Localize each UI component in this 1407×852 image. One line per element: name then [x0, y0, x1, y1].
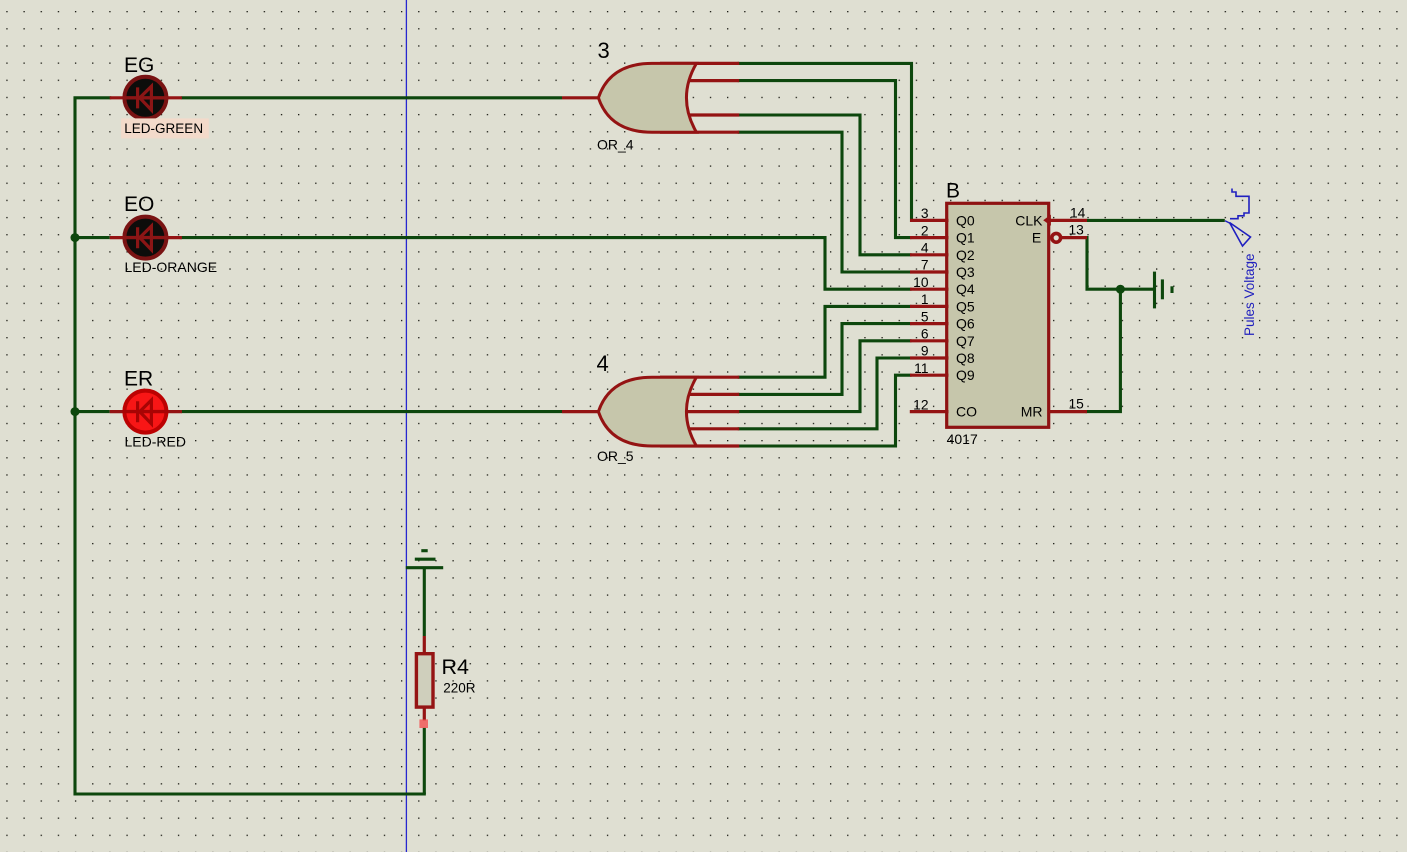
svg-text:Q8: Q8: [956, 350, 975, 366]
wire: OR_4 input4 to Q3: [739, 132, 910, 272]
svg-text:Q2: Q2: [956, 247, 975, 263]
pin 12 (CO): [910, 397, 977, 419]
wire: ground to R4 top: [423, 568, 426, 636]
or-gate OR_4: [562, 63, 739, 132]
pin 4 (Q2): [910, 241, 975, 263]
wire: E pin down to ground: [1087, 238, 1154, 290]
svg-text:Q4: Q4: [956, 281, 975, 297]
svg-text:4: 4: [597, 351, 609, 376]
svg-text:5: 5: [921, 309, 929, 324]
svg-text:3: 3: [921, 206, 929, 221]
svg-text:LED-GREEN: LED-GREEN: [124, 121, 203, 136]
svg-text:15: 15: [1069, 396, 1085, 411]
svg-text:Q1: Q1: [956, 230, 975, 246]
svg-text:220R: 220R: [443, 680, 476, 695]
LED ER: [110, 391, 182, 433]
junction node at ER tap: [71, 407, 80, 416]
pin 15 (MR): [1021, 396, 1087, 419]
wire: OR_5 input2 to Q6: [739, 324, 910, 395]
pin 5 (Q6): [910, 309, 975, 331]
wire: OR_5 input5 to Q9: [739, 375, 910, 446]
pin 14 (CLK): [1015, 205, 1087, 228]
svg-text:1: 1: [921, 292, 929, 307]
svg-text:10: 10: [913, 275, 929, 290]
junction node at ground/MR: [1116, 285, 1125, 294]
svg-text:Q6: Q6: [956, 316, 975, 332]
ground above R4: [406, 551, 443, 568]
svg-text:2: 2: [921, 223, 929, 238]
svg-text:6: 6: [921, 327, 929, 342]
pin 13 (E): [1032, 223, 1087, 246]
svg-text:EO: EO: [124, 193, 154, 216]
svg-text:7: 7: [921, 258, 929, 273]
pin 3 (Q0): [910, 206, 975, 228]
pin 6 (Q7): [910, 327, 975, 349]
wire: left rail from EG row down to bottom and across to R4: [75, 98, 424, 794]
svg-text:12: 12: [913, 397, 928, 412]
svg-text:EG: EG: [124, 54, 154, 77]
pin 10 (Q4): [910, 275, 975, 297]
svg-text:LED-RED: LED-RED: [125, 433, 186, 449]
svg-text:Q0: Q0: [956, 212, 975, 228]
svg-text:Q5: Q5: [956, 298, 975, 314]
svg-text:3: 3: [598, 38, 610, 63]
pin 11 (Q9): [910, 361, 975, 383]
wire: OR_4 input2 to Q1: [739, 81, 910, 238]
svg-text:Pules Voltage: Pules Voltage: [1242, 253, 1257, 336]
svg-text:Q7: Q7: [956, 333, 975, 349]
LED EO: [110, 217, 182, 259]
wire: ground junction down to MR: [1087, 289, 1120, 411]
connection marker at R4 bottom: [419, 719, 428, 728]
svg-text:E: E: [1032, 230, 1041, 246]
wire: rail to EO LED: [75, 236, 110, 239]
sheet boundary line: [405, 0, 407, 852]
svg-text:Q9: Q9: [956, 367, 975, 383]
wire: OR_5 input1 to Q5: [739, 306, 910, 377]
svg-text:Q3: Q3: [956, 264, 975, 280]
svg-text:LED-ORANGE: LED-ORANGE: [125, 259, 218, 275]
pin 9 (Q8): [910, 344, 975, 366]
svg-text:MR: MR: [1021, 404, 1043, 420]
svg-text:9: 9: [921, 344, 929, 359]
pin 1 (Q5): [910, 292, 975, 314]
pin 2 (Q1): [910, 223, 975, 245]
svg-text:4: 4: [921, 241, 929, 256]
wire: OR_5 input4 to Q8: [739, 358, 910, 429]
svg-text:11: 11: [914, 361, 928, 376]
svg-text:ER: ER: [124, 367, 153, 390]
wire: rail to ER LED: [75, 410, 110, 413]
svg-text:OR_4: OR_4: [597, 136, 634, 152]
junction node at EO tap: [71, 233, 80, 242]
pulse generator icon: [1225, 189, 1251, 247]
ground right of IC: [1155, 272, 1173, 309]
wire: EG LED to OR_4 output: [181, 96, 562, 99]
or-gate OR_5: [562, 377, 739, 446]
svg-text:R4: R4: [442, 655, 470, 679]
svg-text:14: 14: [1070, 205, 1086, 220]
svg-text:CO: CO: [956, 404, 977, 420]
pin 7 (Q3): [910, 258, 975, 280]
wire: CLK to pulse source: [1087, 219, 1225, 222]
svg-text:B: B: [946, 180, 960, 203]
LED EG: [110, 77, 182, 119]
svg-text:CLK: CLK: [1015, 212, 1043, 228]
wire: OR_4 input3 to Q2: [739, 115, 910, 255]
wire: R4 bottom to rail: [423, 728, 426, 794]
wire: EO LED right to Q4 pin: [181, 238, 910, 290]
resistor R4: [416, 636, 433, 721]
label LED-GREEN: [121, 118, 209, 138]
svg-text:13: 13: [1069, 223, 1085, 238]
wire: OR_5 input3 to Q7: [739, 341, 910, 412]
wire: ER LED right to OR_5 output: [181, 410, 562, 413]
svg-text:4017: 4017: [947, 431, 978, 447]
wire: OR_4 input1 to Q0: [739, 63, 911, 220]
svg-text:OR_5: OR_5: [597, 448, 634, 464]
IC B 4017 body: [947, 203, 1049, 427]
